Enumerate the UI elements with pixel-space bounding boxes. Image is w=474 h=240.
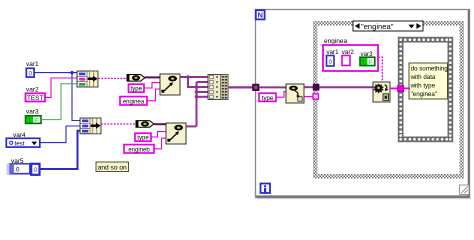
case tunnel type (pink) <box>313 94 318 99</box>
wire pill2 to tovariant U2 <box>154 123 166 125</box>
wire var4 to bundle2 <box>40 126 80 143</box>
wire build array out to loop tunnel <box>228 86 253 88</box>
svg-text:with data: with data <box>410 74 436 81</box>
svg-text:type: type <box>137 136 149 142</box>
wire film tunnel to text box <box>404 87 410 89</box>
for loop count terminal N <box>256 10 265 19</box>
svg-text:do something: do something <box>411 66 449 73</box>
wire var1 branch to bundle2 <box>72 73 80 121</box>
wire engineb to U2 <box>154 138 166 149</box>
wire U3 type out to case tunnel pink <box>304 96 313 98</box>
wire pill1 to tovariant U1 <box>145 76 160 78</box>
terminal var5 array <box>7 164 40 176</box>
wire var5 array to bundle2 <box>40 131 81 169</box>
wire U1 branch down to bus <box>188 77 197 87</box>
for loop iteration terminal i <box>261 184 271 194</box>
wire bundle1 cluster out (dashed) <box>98 77 127 79</box>
to variant node U2 <box>166 123 186 144</box>
svg-text:0: 0 <box>34 167 38 174</box>
svg-text:"enginea": "enginea" <box>411 91 437 98</box>
terminal var4 ring <box>6 138 40 147</box>
wire U2 variant out to bus <box>186 125 197 127</box>
svg-text:enginea: enginea <box>324 38 348 45</box>
for loop border <box>256 10 472 199</box>
film tunnel <box>398 86 404 92</box>
svg-text:N: N <box>257 11 262 20</box>
wire type to U1 <box>144 83 160 88</box>
svg-text:test: test <box>15 140 25 147</box>
wire U4 out to film tunnel <box>390 87 398 89</box>
variant to data node U4 <box>373 82 390 102</box>
svg-text:F: F <box>369 60 372 66</box>
svg-text:type: type <box>262 96 274 102</box>
loop resize handle <box>460 185 470 195</box>
svg-text:and so on: and so on <box>98 165 127 172</box>
get variant type node U3 <box>286 84 304 103</box>
string constant enginea <box>120 97 147 106</box>
string constant type (engine b) <box>135 133 151 142</box>
wire bundle2 cluster out (dashed) <box>101 123 136 125</box>
svg-text:type: type <box>131 87 143 93</box>
svg-text:F: F <box>35 118 38 124</box>
svg-text:0: 0 <box>28 70 32 77</box>
wire type2 to U2 <box>151 132 166 137</box>
bus stub row3 <box>197 86 209 88</box>
wire cluster to U4 (dashed) <box>378 57 382 82</box>
svg-text:with type: with type <box>410 82 436 89</box>
bundle+flatten node B1 <box>77 71 98 87</box>
svg-text:engineb: engineb <box>128 147 150 153</box>
case selector label <box>353 21 423 31</box>
wire var1 to bundle1 <box>34 72 77 74</box>
junction var1 <box>70 71 73 74</box>
stacked sequence (film strip) structure border <box>398 37 454 143</box>
variant bus vertical <box>196 82 198 126</box>
free label: do something text box <box>409 63 448 99</box>
wire var3 to bundle1 <box>41 84 77 120</box>
wire enginea to U1 <box>147 89 160 101</box>
bundle+flatten node B2 <box>80 118 101 134</box>
wire U3 variant out to case tunnel <box>304 86 314 88</box>
bus stub row5 <box>197 96 209 98</box>
bus stub row4 <box>197 91 209 93</box>
terminal var3 boolean <box>26 116 42 124</box>
case structure border <box>313 21 464 179</box>
flatten pill node P1 <box>127 75 145 82</box>
svg-text:"enginea": "enginea" <box>361 22 394 31</box>
string constant engineb <box>124 145 154 154</box>
terminal var2 TEST <box>26 93 46 102</box>
terminal var1 <box>26 68 34 77</box>
case tunnel variant <box>313 84 319 90</box>
svg-text:var3: var3 <box>26 109 39 116</box>
cluster constant enginea (in case) <box>323 38 378 71</box>
wire tunnel to node U3 <box>259 86 286 88</box>
svg-text:0: 0 <box>16 167 20 174</box>
svg-text:TEST: TEST <box>27 95 43 102</box>
build array node A1 <box>208 75 228 100</box>
loop tunnel (variant array) <box>253 84 259 90</box>
flatten pill node P2 <box>136 121 154 128</box>
junction U1 branch <box>186 75 190 79</box>
wire type3 to U3 <box>276 92 286 98</box>
svg-text:var1: var1 <box>26 61 39 68</box>
string constant type (in loop) <box>259 93 276 102</box>
free label: and so on <box>96 162 129 172</box>
wire var2 to bundle1 <box>45 78 77 97</box>
bus junction dots <box>195 85 199 89</box>
svg-text:enginea: enginea <box>123 99 145 105</box>
string constant type (engine a) <box>129 84 145 93</box>
bus stub row2 <box>197 81 209 83</box>
to variant node U1 <box>160 74 180 95</box>
wire case tunnel to U4 <box>319 86 373 88</box>
wire U1 variant out to build array row1 <box>180 76 208 78</box>
